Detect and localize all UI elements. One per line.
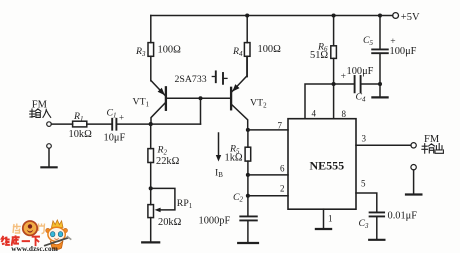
svg-text:6: 6 [280,164,285,174]
resistor R4 [232,43,281,58]
transistor VT1 [133,81,166,123]
svg-text:1kΩ: 1kΩ [225,153,243,164]
svg-text:10kΩ: 10kΩ [69,129,93,140]
wire R3 top lead [150,16,152,43]
svg-text:1000pF: 1000pF [199,216,231,227]
junction dot pin2 node [246,194,250,198]
svg-text:51Ω: 51Ω [310,50,328,61]
junction dot top rail R4 [245,13,249,17]
svg-text:+: + [119,113,124,123]
terminal +5V [393,12,420,23]
junction dot pin6 node [246,173,250,177]
wire pin 2 [248,195,288,197]
label 2SA733 [175,71,228,84]
junction dot R6 line C4 [332,82,336,86]
watermark red text [1,235,40,246]
capacitor C1 [104,108,126,144]
svg-text:5: 5 [361,179,366,189]
svg-text:FM: FM [424,134,440,145]
svg-text:8: 8 [342,109,347,119]
wire C5 bottom lead [379,54,381,96]
svg-text:22kΩ: 22kΩ [156,156,180,167]
svg-text:100μF: 100μF [390,46,417,57]
op-amp U1 NE555 box [288,119,356,210]
ground below C5 [372,96,387,98]
ground below FM input [41,148,56,167]
resistor R2 [148,145,180,167]
capacitor C4 [341,66,374,103]
junction dot input node [149,122,153,126]
terminal input ground [47,144,52,149]
svg-text:2: 2 [280,184,285,194]
wire base line VT1 VT2 [167,97,231,99]
wire C1 to base corner [117,123,200,125]
ground below FM output [406,170,421,195]
svg-text:2SA733: 2SA733 [175,74,207,85]
svg-text:1: 1 [328,214,333,224]
junction dot VT2 collector pin7 [246,128,250,132]
wire base node down to input line [200,98,202,124]
potentiometer RP1 [148,188,193,228]
wire C5 top lead [379,16,381,49]
svg-text:7: 7 [278,120,283,130]
svg-text:3: 3 [362,134,367,144]
wire R6 bottom lead to pin 8 [333,58,335,118]
svg-text:4: 4 [312,109,317,119]
capacitor C3 [359,211,418,230]
svg-text:FM: FM [32,100,48,111]
resistor R3 [135,43,181,58]
wire top +5V rail [151,15,393,17]
svg-text:20kΩ: 20kΩ [158,217,182,228]
wire input to R1 [51,123,72,125]
svg-text:www.dzsc.com: www.dzsc.com [11,244,58,253]
wire pin 6 [248,174,288,176]
junction dot top rail C5 [378,13,382,17]
junction dot RP1 wiper node [149,186,153,190]
resistor R5 [225,144,251,164]
wire R5 top lead [247,130,249,147]
current arrow IB [215,133,223,179]
terminal FM input [32,100,52,127]
wire C2 bottom lead [247,221,249,242]
capacitor C5 [363,35,417,57]
wire RP1 bottom lead [150,218,152,242]
resistor R6 [310,41,336,61]
watermark mascot [44,220,71,250]
wire R6 top lead [333,16,335,46]
wire R1 to C1 [87,123,111,125]
svg-text:+5V: +5V [401,12,420,23]
svg-text:NE555: NE555 [310,158,345,172]
wire R4 top lead [246,16,248,43]
wire R2 top lead [150,124,152,149]
capacitor C2 [199,192,257,227]
transistor VT2 [231,56,267,130]
resistor R1 [69,111,93,140]
terminal output ground [411,165,416,170]
svg-text:+: + [341,72,346,82]
ground below pin 1 [316,228,331,230]
ground below C2 [238,242,258,244]
wire pin 5 to C3 [356,193,377,212]
junction dot C4 C5 node [378,82,382,86]
watermark logo badge [13,221,45,235]
wire R5 bottom to C2 [247,161,249,215]
wire R4 bottom lead to VT2 emitter [246,56,248,76]
wire pin 3 output [356,144,411,146]
svg-text:100μF: 100μF [347,66,374,77]
wire R2 to RP1 [150,163,152,205]
wire C3 bottom lead [376,217,378,238]
junction dot base node [199,96,203,100]
ground below RP1 [142,241,159,243]
terminal FM output [411,134,440,148]
ground below C3 [369,239,384,241]
svg-text:0.01μF: 0.01μF [388,211,418,222]
label FM input chinese [30,109,51,118]
wire C4 right lead [362,83,380,85]
wire pin4 to C4 node [305,84,354,119]
label FM output chinese [422,144,444,154]
svg-text:100Ω: 100Ω [158,45,182,56]
wire pin 7 [248,129,288,131]
svg-text:100Ω: 100Ω [258,44,282,55]
wire R3 bottom lead to VT1 emitter [150,56,152,81]
wire pin 1 [323,209,325,228]
junction dot top rail R6 [332,13,336,17]
svg-text:10μF: 10μF [104,133,126,144]
